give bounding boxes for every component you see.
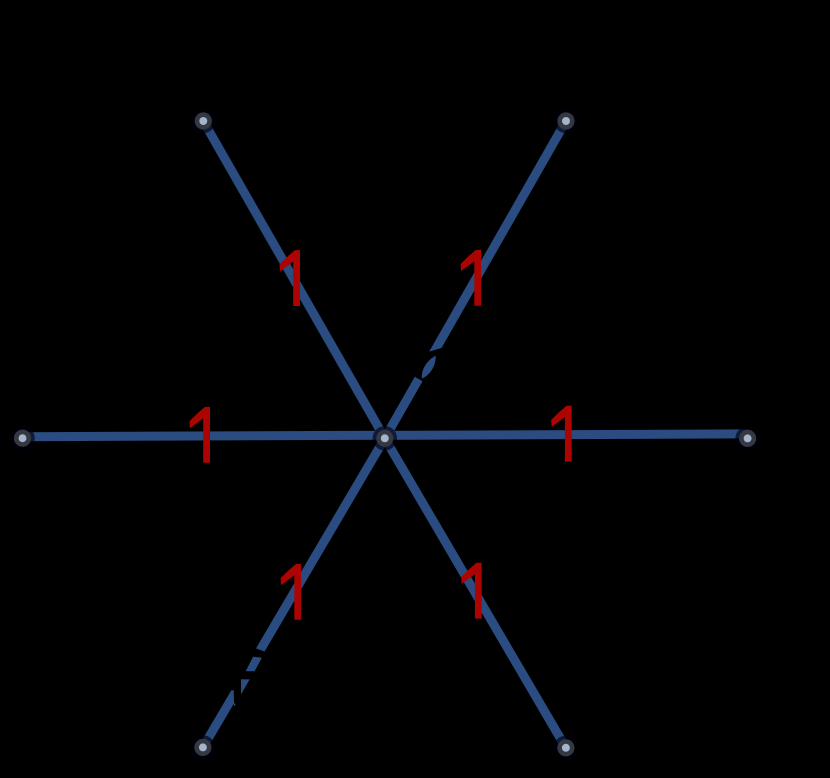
wire: edge center to top-left node (203, 121, 384, 438)
blue remnant wedge on bottom-left edge (234, 702, 236, 706)
wire: edge center to bottom-left node (203, 438, 385, 747)
label 1 on bottom-left edge (281, 564, 302, 620)
label 1 on top-right edge (461, 250, 482, 306)
wire: horizontal edge left node to right node (23, 434, 748, 437)
node top-left (197, 115, 210, 128)
wire: edge center to bottom-right node (385, 438, 566, 748)
label 1 on bottom-right edge (461, 563, 482, 619)
hidden black glyph blob over bottom-left edge (228, 647, 270, 709)
wire: edge center to top-right node (385, 121, 566, 438)
label 1 on top-left edge (280, 250, 301, 306)
node bottom-left (197, 741, 210, 754)
node bottom-right (560, 742, 573, 755)
node right (741, 432, 754, 445)
hidden black glyph blob over top-right edge (407, 346, 452, 383)
node left (16, 432, 29, 445)
blue crescent remnant inside glyph counter on top-right edge (422, 356, 436, 379)
label 1 on right edge (551, 406, 572, 462)
blue remnant piece 1 (parallelogram) on bottom-left edge (246, 657, 262, 672)
node halos (semi-transparent dark disks) (10, 109, 760, 760)
blue remnant piece 2 (knife) on bottom-left edge (241, 679, 250, 694)
node center (379, 432, 392, 445)
node top-right (560, 115, 573, 128)
label 1 on left edge (190, 407, 211, 463)
